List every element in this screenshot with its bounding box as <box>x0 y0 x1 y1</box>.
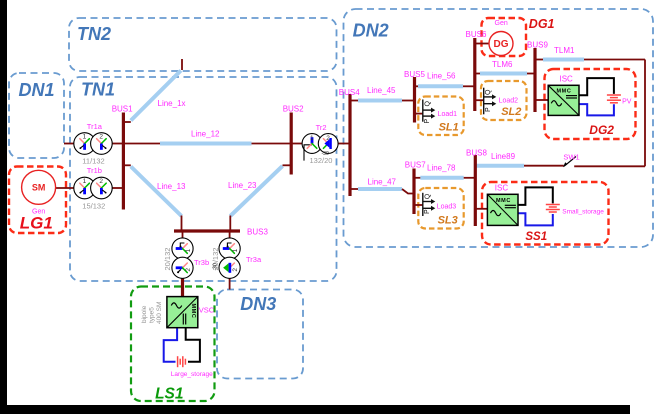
svg-text:DN2: DN2 <box>353 21 389 41</box>
svg-text:BUS4: BUS4 <box>339 88 360 97</box>
svg-text:132/20: 132/20 <box>310 156 333 165</box>
svg-text:LS1: LS1 <box>155 385 183 402</box>
svg-text:Q: Q <box>485 89 492 95</box>
svg-text:DN1: DN1 <box>19 80 55 100</box>
svg-text:SL3: SL3 <box>438 215 458 227</box>
svg-text:Q: Q <box>425 101 432 107</box>
svg-text:2: 2 <box>232 268 239 272</box>
svg-text:bipole: bipole <box>141 305 148 323</box>
svg-text:SL2: SL2 <box>501 106 521 118</box>
svg-text:Line_56: Line_56 <box>427 72 456 81</box>
svg-text:P: P <box>485 107 492 112</box>
svg-text:11/132: 11/132 <box>82 156 104 165</box>
svg-text:BUS1: BUS1 <box>112 105 133 114</box>
svg-text:Line_45: Line_45 <box>367 86 396 95</box>
svg-text:Gen: Gen <box>495 20 508 27</box>
svg-text:1: 1 <box>232 248 239 252</box>
svg-text:DG2: DG2 <box>589 123 614 137</box>
svg-text:TN2: TN2 <box>77 24 111 44</box>
svg-text:1: 1 <box>83 178 87 185</box>
svg-text:ISC: ISC <box>495 184 509 193</box>
svg-text:SW1: SW1 <box>563 152 579 161</box>
svg-text:ISC: ISC <box>560 75 574 84</box>
svg-text:Line_13: Line_13 <box>157 182 186 191</box>
svg-text:TLM1: TLM1 <box>554 46 575 55</box>
svg-text:1: 1 <box>83 134 87 141</box>
svg-text:TLM6: TLM6 <box>492 60 513 69</box>
svg-text:Large_storage: Large_storage <box>171 371 213 378</box>
svg-text:-30: -30 <box>213 263 219 270</box>
svg-text:BUS9: BUS9 <box>527 40 548 49</box>
svg-text:Load2: Load2 <box>499 98 519 105</box>
svg-text:BUS5: BUS5 <box>404 70 425 79</box>
svg-text:Load3: Load3 <box>437 203 457 210</box>
svg-text:2: 2 <box>326 135 330 142</box>
svg-text:SS1: SS1 <box>525 231 547 243</box>
svg-text:BUS8: BUS8 <box>466 149 487 158</box>
svg-text:2: 2 <box>99 134 103 141</box>
svg-text:Line_23: Line_23 <box>228 181 257 190</box>
svg-text:Line_47: Line_47 <box>368 177 397 186</box>
svg-text:SL1: SL1 <box>439 121 459 133</box>
svg-text:DN3: DN3 <box>240 294 276 314</box>
svg-text:Tr1a: Tr1a <box>87 122 103 131</box>
svg-text:Tr3b: Tr3b <box>194 258 209 267</box>
svg-text:20/132: 20/132 <box>163 248 172 271</box>
svg-text:DG: DG <box>494 39 509 50</box>
svg-text:-30: -30 <box>322 151 329 157</box>
svg-text:Tr1b: Tr1b <box>87 166 102 175</box>
svg-text:2: 2 <box>185 268 192 272</box>
svg-text:2: 2 <box>99 178 103 185</box>
svg-text:LG1: LG1 <box>20 214 53 233</box>
svg-text:15/132: 15/132 <box>82 201 105 210</box>
svg-text:P: P <box>424 119 431 124</box>
svg-text:Line_78: Line_78 <box>427 164 456 173</box>
svg-text:Line_1x: Line_1x <box>158 99 186 108</box>
svg-text:BUS6: BUS6 <box>466 30 487 39</box>
svg-text:Line89: Line89 <box>491 152 516 161</box>
svg-text:BUS2: BUS2 <box>283 104 304 113</box>
svg-text:DG1: DG1 <box>529 17 555 31</box>
svg-text:Q: Q <box>425 193 432 199</box>
svg-text:TN1: TN1 <box>81 80 115 100</box>
svg-text:BUS3: BUS3 <box>247 228 268 237</box>
svg-text:VSC: VSC <box>199 306 215 315</box>
svg-text:SM: SM <box>32 183 46 193</box>
svg-text:Tr3a: Tr3a <box>246 255 262 264</box>
svg-text:MMC: MMC <box>496 198 511 204</box>
svg-text:type5: type5 <box>149 307 156 323</box>
svg-text:MMC: MMC <box>190 304 196 319</box>
svg-text:Tr2: Tr2 <box>316 123 327 132</box>
svg-text:PV: PV <box>622 99 632 106</box>
svg-text:Small_storage: Small_storage <box>562 208 604 215</box>
svg-text:P: P <box>424 209 431 214</box>
svg-text:1: 1 <box>310 135 314 142</box>
svg-text:400 SM: 400 SM <box>156 302 163 324</box>
svg-text:Load1: Load1 <box>438 111 458 118</box>
svg-text:BUS7: BUS7 <box>405 161 426 170</box>
svg-text:MMC: MMC <box>557 89 572 95</box>
svg-text:Line_12: Line_12 <box>191 130 220 139</box>
svg-text:1: 1 <box>185 248 192 252</box>
